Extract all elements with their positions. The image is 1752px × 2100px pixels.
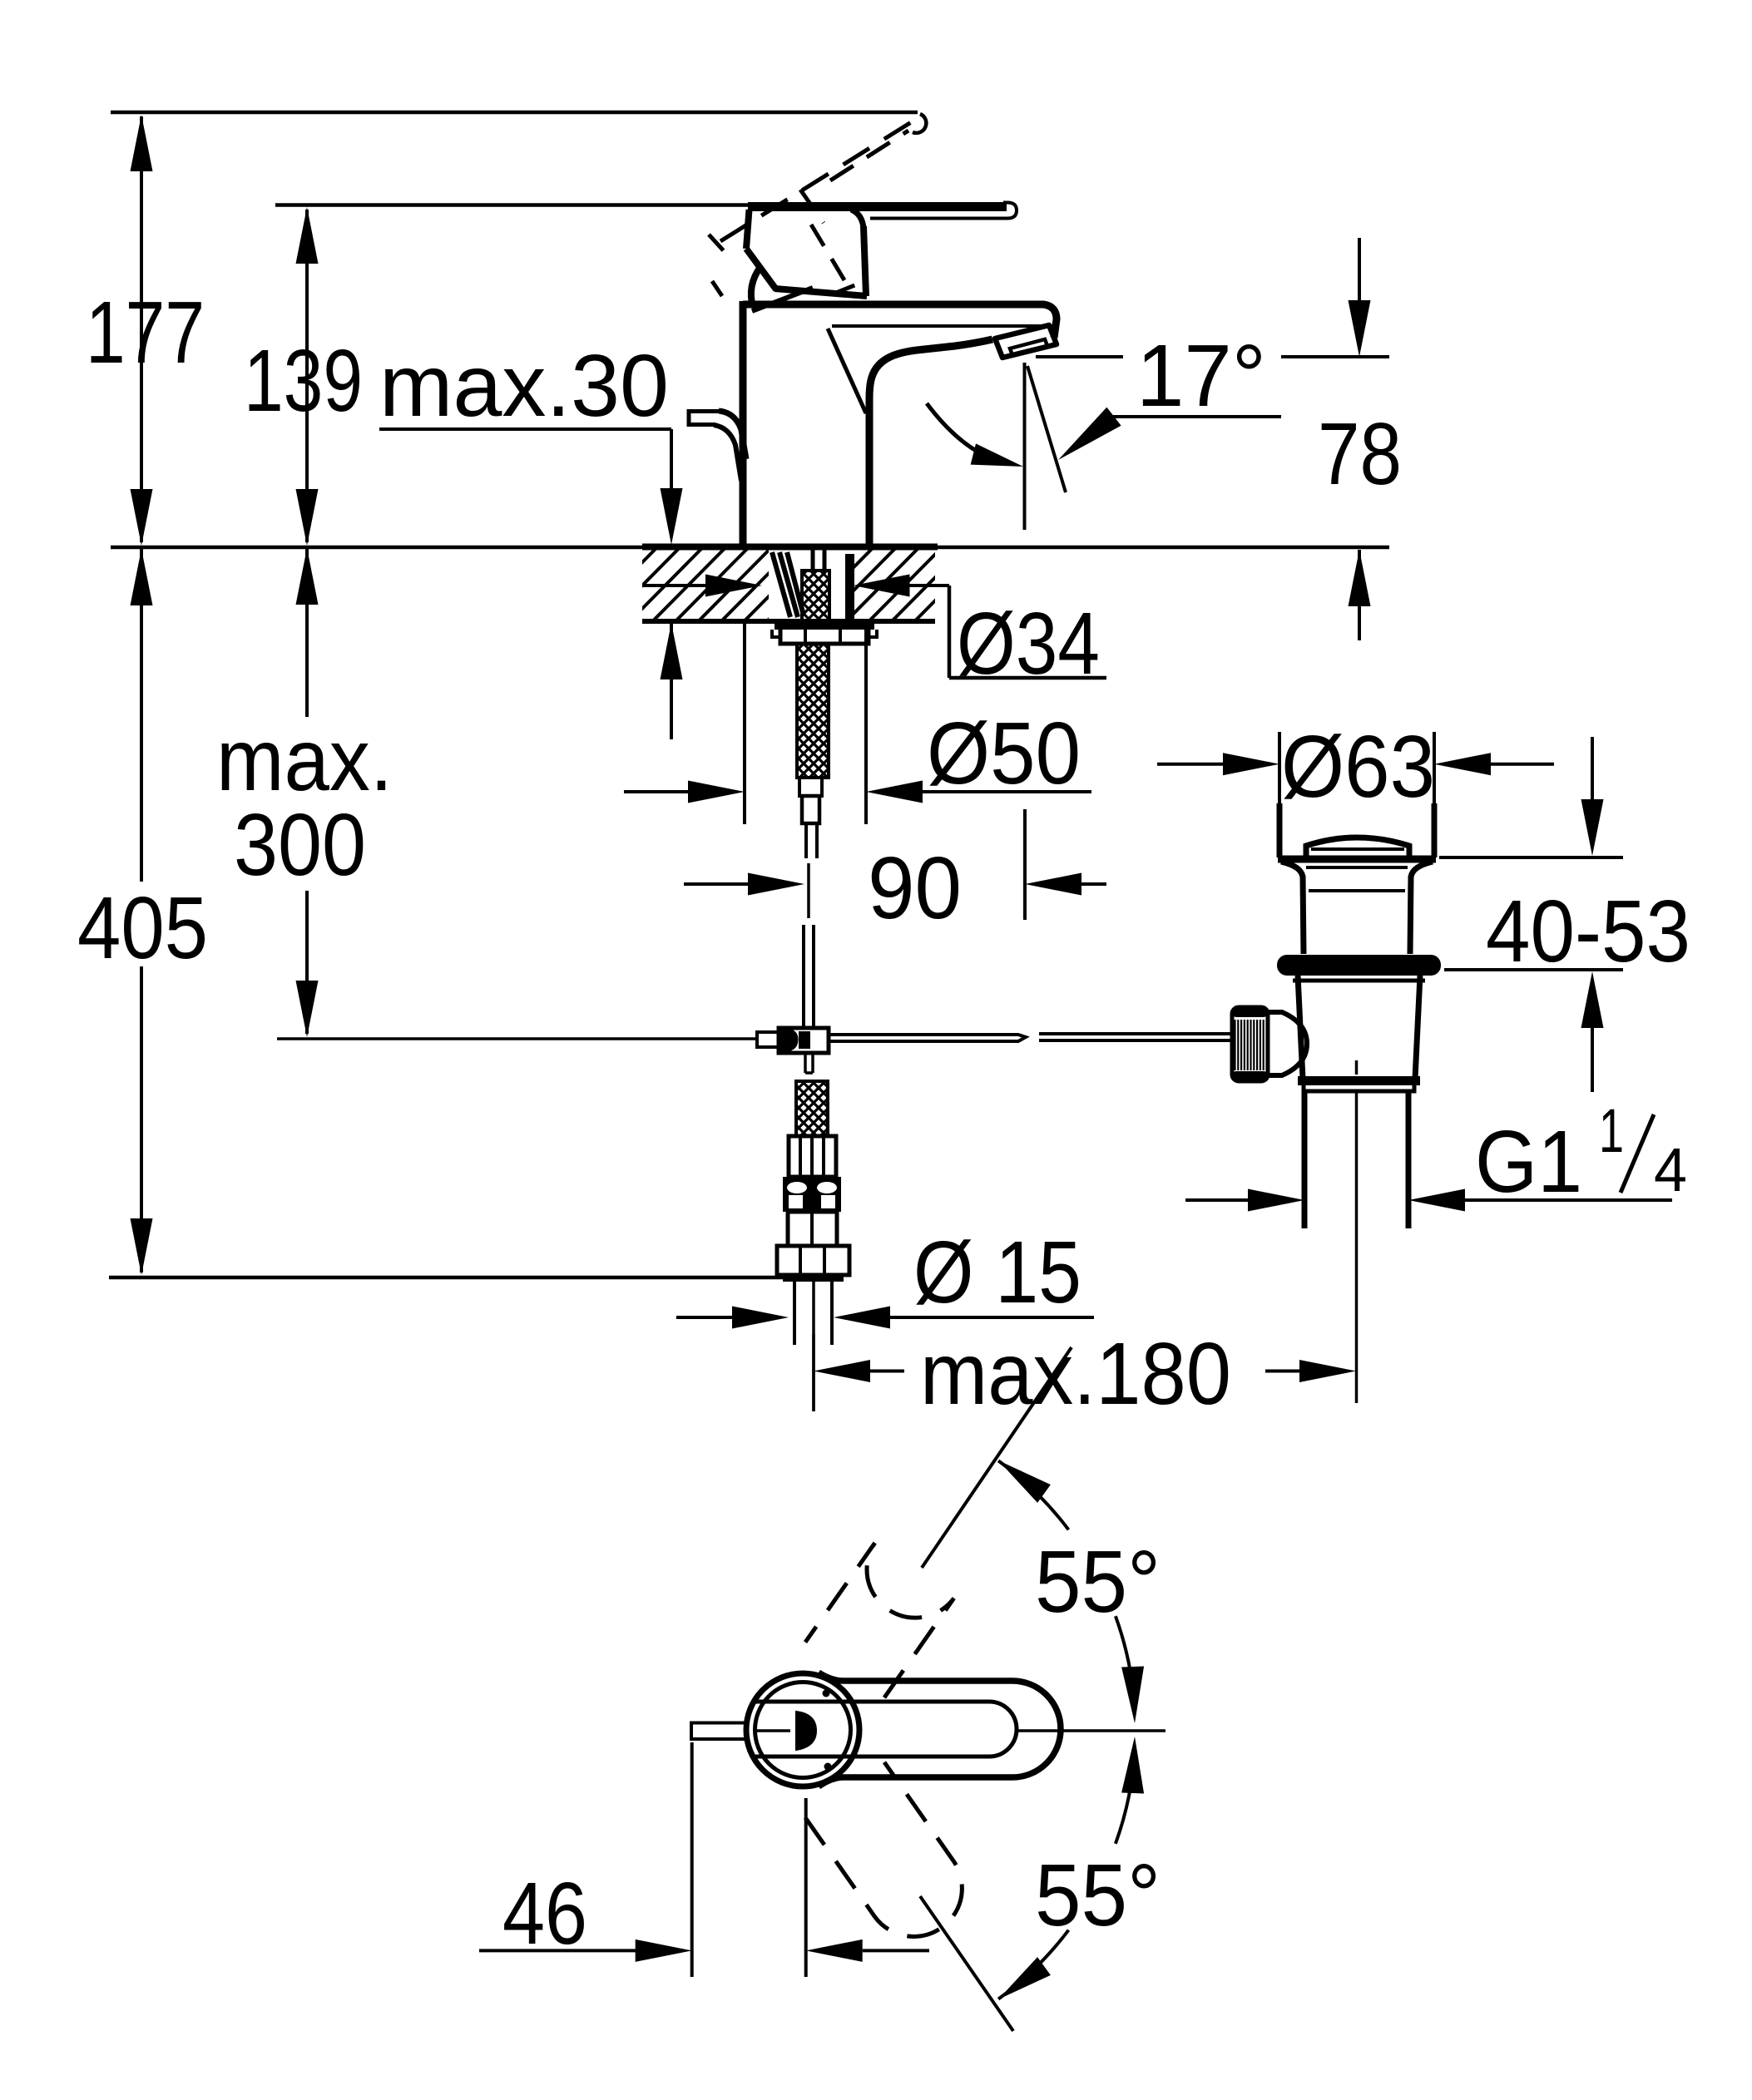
drain valve o-ring	[1277, 955, 1441, 976]
faucet spout underside	[869, 339, 992, 546]
max.30 thickness arrow tail	[670, 623, 673, 739]
label G1 fraction slash	[1621, 1114, 1654, 1193]
drain centerline	[1355, 1091, 1359, 1403]
fitting bottom cap	[783, 1275, 844, 1282]
drain valve boss	[1268, 1012, 1307, 1075]
drain centerline upper dash	[1355, 1060, 1359, 1075]
dimension 40-53 extension upper	[1439, 856, 1623, 859]
dimension Ø63 left arrow	[1223, 753, 1279, 775]
dimension G1quarter right arrow	[1408, 1189, 1465, 1212]
supply hose connector body	[802, 796, 819, 823]
dimension Ø63 right tail	[1491, 763, 1554, 766]
dimension 40-53 lower tail	[1591, 1028, 1594, 1092]
mounting nut tab left	[772, 630, 780, 637]
drain valve right side upper	[1433, 732, 1436, 803]
svg-text:Ø50: Ø50	[927, 704, 1081, 803]
svg-text:max.30: max.30	[379, 337, 669, 435]
dimension 405 upper tail	[140, 549, 143, 882]
pipe centerline extension	[812, 1334, 815, 1411]
dimension 177 top arrow	[131, 115, 153, 171]
bottom view inner circle	[755, 1682, 851, 1778]
dimension G1quarter left arrow	[1248, 1189, 1304, 1212]
dimension 177 bottom arrow tail	[140, 546, 143, 582]
dimension 78 up arrow	[1349, 550, 1371, 606]
handle hub bottom edge	[775, 289, 867, 296]
stream swing arc	[927, 403, 1005, 463]
mounting shank right bar	[845, 554, 854, 621]
angle arc upper a	[998, 1460, 1068, 1529]
drain valve body sides	[1298, 976, 1420, 1079]
bottom view handle inner	[755, 1702, 1017, 1757]
pull rod stub below clamp	[804, 1053, 807, 1073]
drain valve flange bottom	[1278, 856, 1436, 863]
aerator outer	[995, 325, 1057, 358]
dimension Ø15 left tail	[676, 1316, 734, 1319]
countertop surface line left	[111, 546, 642, 550]
lever raised tip cap	[913, 114, 926, 133]
dimension 139 bottom arrow	[296, 489, 319, 546]
angle arc lower a	[998, 1930, 1068, 1999]
dimension G1quarter left tail	[1185, 1198, 1248, 1202]
supply hose connector	[799, 778, 822, 796]
svg-text:max.: max.	[216, 711, 393, 809]
dimension Ø34 underline	[949, 676, 1106, 680]
dimension 46 left arrow	[636, 1939, 692, 1962]
pull rod clamp small box	[757, 1032, 779, 1047]
dimension 78 down arrow line	[1358, 238, 1361, 302]
dimension max180 left arrow	[814, 1360, 870, 1382]
pull rod clamp block	[779, 1028, 829, 1053]
dimension max.300 lower line	[305, 891, 309, 1034]
bottom view handle centerline left	[757, 1729, 790, 1732]
dimension max180 right arrow	[1299, 1360, 1356, 1382]
dimension Ø34 right arrow	[854, 575, 910, 597]
svg-text:Ø34: Ø34	[957, 595, 1100, 693]
dimension 46 left tail	[479, 1949, 637, 1952]
dimension 78 up arrow tail	[1358, 550, 1361, 640]
dimension Ø15 left arrow	[732, 1307, 789, 1329]
dimension 90 left arrow	[748, 873, 804, 896]
faucet body right column edge	[866, 399, 874, 546]
dimension Ø34 left arrow tail	[642, 584, 708, 587]
dimension 90 extension right	[1023, 809, 1027, 920]
dimension 177 vertical line	[140, 116, 143, 542]
svg-text:G1: G1	[1475, 1113, 1582, 1211]
angle arc upper arrow at ray	[998, 1460, 1051, 1503]
handle hub right edge	[864, 226, 866, 296]
pull rod clamp jaw	[780, 1030, 797, 1051]
17deg leader arrow	[1058, 408, 1121, 460]
dimension 40-53 lower arrow	[1581, 971, 1604, 1028]
handle pivot dome arc	[751, 267, 760, 307]
mounting nut tab right	[869, 630, 877, 637]
faucet body step line	[832, 324, 1053, 328]
dimension max.300 upper tail	[305, 548, 309, 717]
drain valve body bottom lip	[1304, 1085, 1414, 1091]
pipe centerline	[812, 1282, 815, 1411]
fitting body	[788, 1212, 837, 1246]
hub raised dashed edge a	[800, 190, 824, 223]
angle arc upper b	[1116, 1616, 1133, 1689]
fitting collar	[783, 1177, 841, 1212]
svg-text:55°: 55°	[1035, 1846, 1161, 1944]
drain valve left side upper	[1278, 732, 1281, 803]
pipe below fitting	[793, 1282, 796, 1345]
lever bar top edge	[748, 202, 1007, 211]
dimension Ø34 leader vertical	[948, 586, 952, 678]
dimension Ø34 right tail	[909, 584, 949, 587]
max.30 leader arrow	[661, 488, 683, 545]
angle arc lower arrow at ray	[998, 1957, 1051, 1999]
mounting washer	[775, 622, 874, 630]
handle raised 55deg dashed (upper)	[805, 1543, 954, 1697]
angle ray lower	[920, 1896, 1013, 2031]
bottom view dot upper	[823, 1690, 830, 1697]
bottom view outer circle	[746, 1673, 859, 1786]
dimension Ø15 right tail	[890, 1316, 1094, 1319]
dimension Ø50 left arrow	[688, 781, 745, 803]
spout stream vertical line	[1023, 363, 1027, 530]
lever bar right end cap	[1003, 203, 1017, 219]
countertop surface line right	[938, 546, 1389, 550]
hub raised dashed edge c	[836, 283, 861, 293]
handle hub base edge	[752, 288, 813, 311]
drain valve neck line 1	[1306, 866, 1408, 869]
hose lower braid	[796, 1081, 828, 1136]
dimension Ø50 extension left	[743, 621, 746, 824]
dimension 46 right tail	[863, 1949, 929, 1952]
dimension 90 left tail	[684, 882, 750, 886]
hose axis centerline	[807, 863, 810, 918]
svg-text:Ø63: Ø63	[1281, 718, 1435, 816]
svg-text:405: 405	[77, 879, 208, 977]
svg-text:90: 90	[868, 839, 962, 937]
svg-text:139: 139	[244, 332, 363, 430]
hub raised dashed edge e	[712, 281, 722, 296]
max.30 thickness arrow below deck	[661, 623, 683, 679]
dimension 405 bottom arrow	[131, 1218, 153, 1275]
17deg leader line	[1113, 415, 1281, 418]
dimension 46 right arrow	[806, 1939, 863, 1962]
pull rod far right segment	[1039, 1034, 1232, 1040]
drain valve body shoulder	[1293, 979, 1425, 983]
svg-text:17°: 17°	[1136, 327, 1266, 425]
handle swung 55deg dashed (lower)	[805, 1762, 962, 1937]
faucet spout waterway edge	[828, 329, 866, 413]
bottom view dot lower	[824, 1763, 832, 1771]
dimension 40-53 upper arrow	[1581, 799, 1604, 856]
spout outlet reference left	[1036, 355, 1123, 358]
dimension 90 right arrow	[1025, 873, 1081, 896]
angle arc lower b	[1116, 1771, 1133, 1844]
angle arc lower arrow at centerline	[1121, 1737, 1144, 1794]
handle hub right top curve	[851, 210, 864, 228]
dimension Ø15 right arrow	[834, 1307, 890, 1329]
dimension 40-53 upper line	[1591, 737, 1594, 799]
dimension max.300 bottom arrow	[296, 981, 319, 1037]
svg-text:177: 177	[86, 284, 205, 382]
drain valve neck	[1281, 862, 1433, 954]
dimension 139 vertical line	[305, 210, 309, 542]
countertop hatching left	[582, 549, 884, 623]
dimension Ø50 left arrow tail	[624, 790, 690, 793]
svg-text:55°: 55°	[1035, 1533, 1161, 1631]
reference line bottom (405 datum)	[109, 1276, 783, 1280]
mounting nut	[780, 630, 869, 644]
svg-text:Ø 15: Ø 15	[913, 1223, 1081, 1322]
dimension max.300 top arrow	[296, 548, 319, 605]
dimension max180 left tail	[870, 1370, 904, 1373]
countertop surface line center	[642, 544, 938, 551]
dimension Ø50 right line	[923, 790, 1091, 793]
handle hub left edge	[746, 210, 750, 249]
dimension 405 top arrow	[131, 549, 153, 605]
dimension Ø50 extension right	[864, 621, 868, 824]
dimension 78 down arrow	[1349, 300, 1371, 357]
aerator inner	[1010, 339, 1047, 355]
faucet body top edge	[743, 304, 1057, 338]
mounting shank top bars	[811, 547, 815, 572]
svg-text:46: 46	[502, 1865, 587, 1963]
drain valve neck line 2	[1309, 889, 1405, 892]
hub raised dashed edge d	[709, 235, 725, 253]
dimension 90 right tail	[1079, 882, 1106, 886]
pull rod right segment	[829, 1035, 1026, 1041]
dimension 46 extension left	[690, 1742, 694, 1977]
lever raised dashed upper line	[720, 116, 922, 241]
svg-text:78: 78	[1318, 405, 1402, 503]
pull rod clamp pin	[799, 1031, 810, 1049]
svg-text:40-53: 40-53	[1486, 882, 1690, 981]
spout stream tilted line	[1027, 366, 1066, 492]
pull rod left line	[277, 1037, 757, 1040]
pop-up rod handle bend inner	[714, 425, 741, 481]
countertop bottom line	[642, 619, 935, 624]
svg-text:300: 300	[234, 796, 366, 894]
dimension Ø63 right arrow	[1434, 753, 1491, 775]
drain valve push dome	[1306, 838, 1409, 856]
bottom view centerline right	[1017, 1729, 1166, 1732]
dimension Ø34 left arrow	[705, 575, 762, 597]
angle arc upper arrow at centerline	[1121, 1667, 1144, 1724]
drain valve body bottom band	[1298, 1076, 1420, 1085]
bottom view cartridge marker	[796, 1712, 816, 1750]
supply hose braid upper	[797, 644, 829, 778]
pop-up rod handle bar	[689, 409, 720, 427]
dimension 405 lower line	[140, 966, 143, 1272]
faucet body left edge	[740, 301, 747, 546]
stream swing arrowhead	[971, 443, 1023, 467]
hose ferrule	[789, 1136, 836, 1177]
svg-text:max.180: max.180	[920, 1325, 1231, 1423]
bottom view spout nose	[691, 1723, 746, 1740]
fitting hex nut	[777, 1246, 849, 1275]
svg-text:1: 1	[1599, 1096, 1624, 1165]
dimension 177 bottom arrow	[131, 489, 153, 546]
dimension 139 top arrow	[296, 207, 319, 264]
supply hose tube	[806, 823, 817, 858]
reference line top of body lever rest (139 datum)	[275, 203, 755, 207]
countertop hatching right	[799, 549, 1055, 623]
drain valve knob	[1232, 1007, 1268, 1081]
dimension G1quarter right tail	[1465, 1198, 1672, 1202]
supply hose lines	[802, 925, 805, 1028]
mounting shank braid upper	[802, 571, 829, 621]
reference line top of lever (177 datum)	[111, 111, 918, 115]
drain tailpipe	[1302, 1091, 1308, 1228]
max.30 leader vertical	[670, 429, 673, 532]
pop-up rod handle bend outer	[719, 411, 746, 459]
angle ray upper	[922, 1347, 1071, 1568]
lever raised dashed lower line	[830, 131, 908, 180]
handle hub chamfer	[746, 249, 776, 289]
dimension max180 right tail	[1265, 1370, 1301, 1373]
bottom view handle outer	[819, 1673, 1061, 1786]
dimension 40-53 extension lower	[1444, 968, 1623, 971]
dimension 46 extension right	[804, 1798, 808, 1977]
lever bar underline	[870, 217, 1003, 220]
dimension Ø50 right arrow	[866, 781, 923, 803]
hub raised dashed edge b	[811, 225, 849, 289]
svg-text:4: 4	[1654, 1135, 1687, 1204]
mounting wedge lines	[772, 552, 804, 617]
max.30 leader underline	[379, 427, 671, 431]
spout outlet reference right	[1281, 355, 1389, 358]
dimension Ø63 left tail	[1157, 763, 1223, 766]
